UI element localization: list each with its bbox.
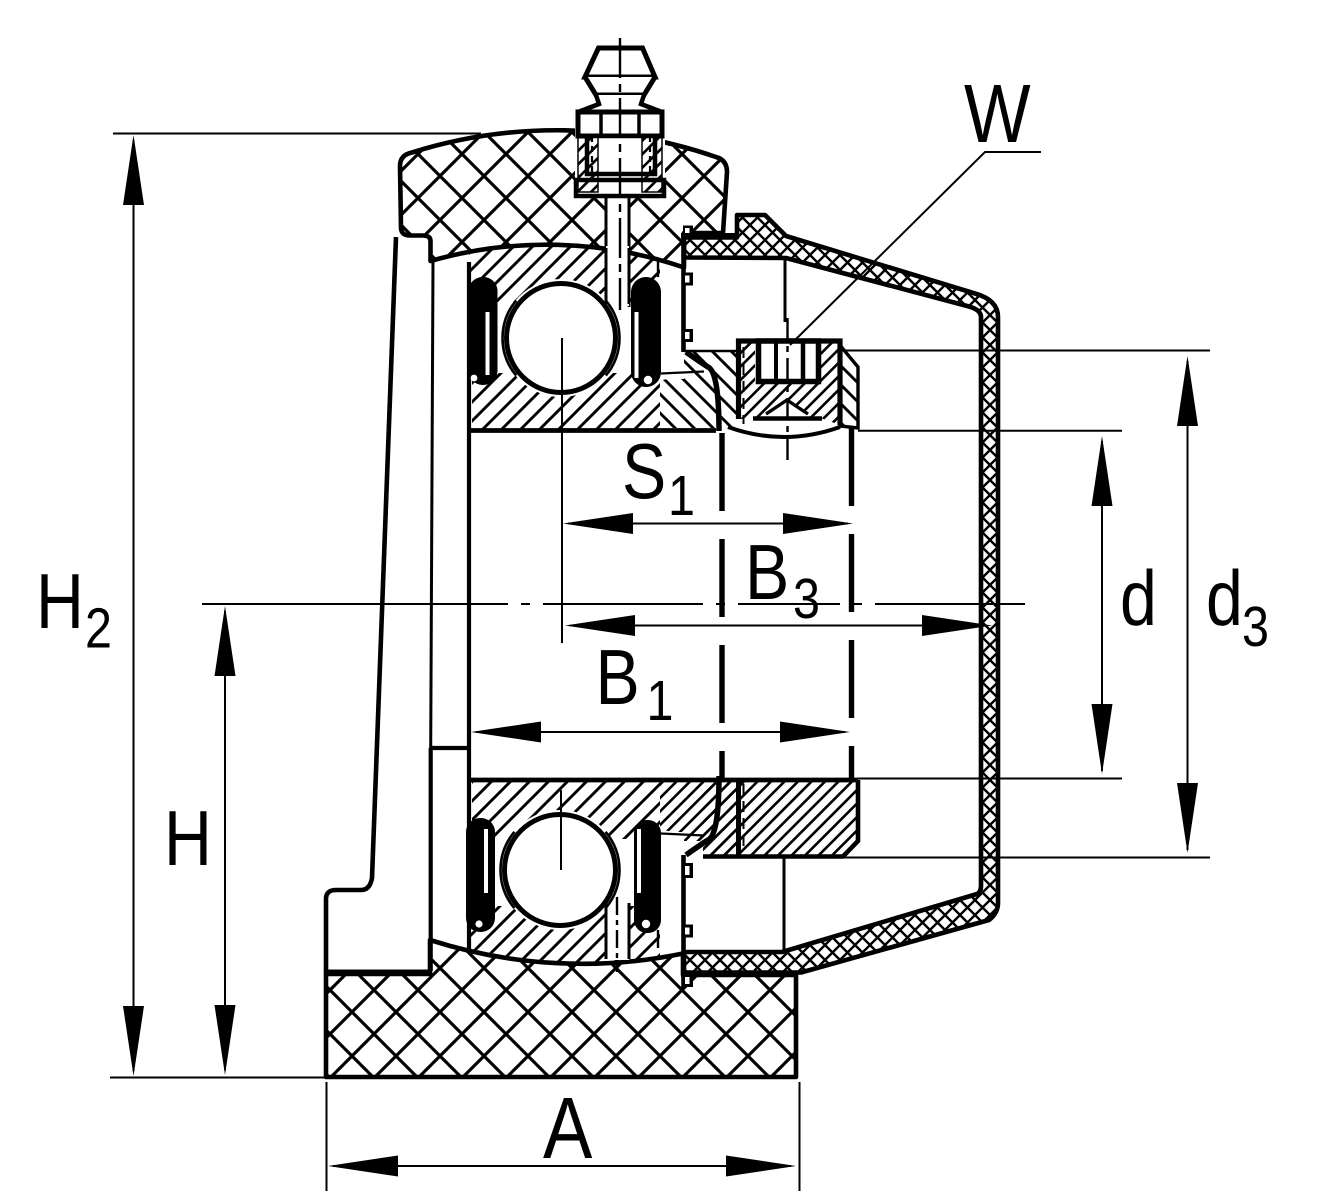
housing top section (crosshatched) (400, 130, 727, 267)
dimension B1 (476, 731, 845, 733)
svg-text:B: B (596, 634, 640, 721)
dimension d3 (841, 351, 1210, 858)
bottom-right nut block (slash hatch) (660, 780, 736, 856)
bearing top: outer ring hatched (469, 245, 660, 306)
svg-text:A: A (543, 1080, 592, 1177)
grease nipple (576, 48, 664, 196)
svg-text:3: 3 (1242, 595, 1269, 659)
housing spigot face + tabs (683, 226, 693, 989)
svg-text:H: H (164, 795, 212, 882)
dimension H (224, 611, 226, 1070)
svg-text:2: 2 (85, 597, 112, 661)
seals (466, 277, 661, 933)
left wall outline (white face) (326, 237, 469, 974)
dimension B3 (570, 625, 987, 627)
svg-text:B: B (745, 529, 789, 616)
drain axis (616, 897, 618, 972)
ball center line top (561, 338, 563, 643)
svg-text:W: W (964, 68, 1031, 161)
svg-text:d: d (1120, 555, 1157, 642)
label W + leader (790, 152, 1041, 345)
grease nipple pocket (white) (575, 124, 665, 307)
svg-text:H: H (36, 558, 84, 645)
top ball (507, 284, 616, 393)
dimension d (858, 431, 1122, 779)
svg-text:1: 1 (647, 669, 674, 733)
dimension S1 (568, 523, 848, 525)
collar bottom (703, 780, 858, 857)
screw axis (786, 318, 788, 460)
thick dashed lines (shaft ends) (722, 428, 852, 780)
svg-text:S: S (622, 428, 666, 515)
raceway shoulder arcs (501, 300, 620, 908)
housing/cap ledge line (681, 233, 739, 238)
centerline horizontal (202, 603, 1025, 605)
seal slits and curl highlights (471, 312, 653, 928)
collar top with set screw (728, 341, 840, 437)
top-right nut block (backslash hatch) (658, 259, 736, 949)
ball center line bottom (560, 790, 562, 870)
dimension H2 (110, 134, 481, 1078)
housing lower section + base (crosshatched) (326, 940, 796, 1077)
bore lines (470, 431, 858, 781)
svg-text:d: d (1206, 555, 1243, 642)
set screw W (759, 341, 819, 382)
bearing bottom: inner ring hatched (472, 779, 660, 839)
nipple axis (619, 38, 621, 310)
dimension A (327, 1082, 800, 1191)
lip top (686, 352, 719, 431)
svg-text:1: 1 (668, 464, 695, 528)
collar top right flange (backslash hatch) (840, 345, 858, 428)
bottom ball (505, 815, 616, 926)
bearing bottom: outer ring hatched (469, 902, 660, 964)
lip bottom (686, 776, 719, 855)
back face edges (784, 259, 785, 953)
svg-text:3: 3 (793, 567, 820, 631)
end cap (crosshatched band) (684, 215, 998, 973)
bearing top: inner ring hatched (472, 373, 660, 430)
